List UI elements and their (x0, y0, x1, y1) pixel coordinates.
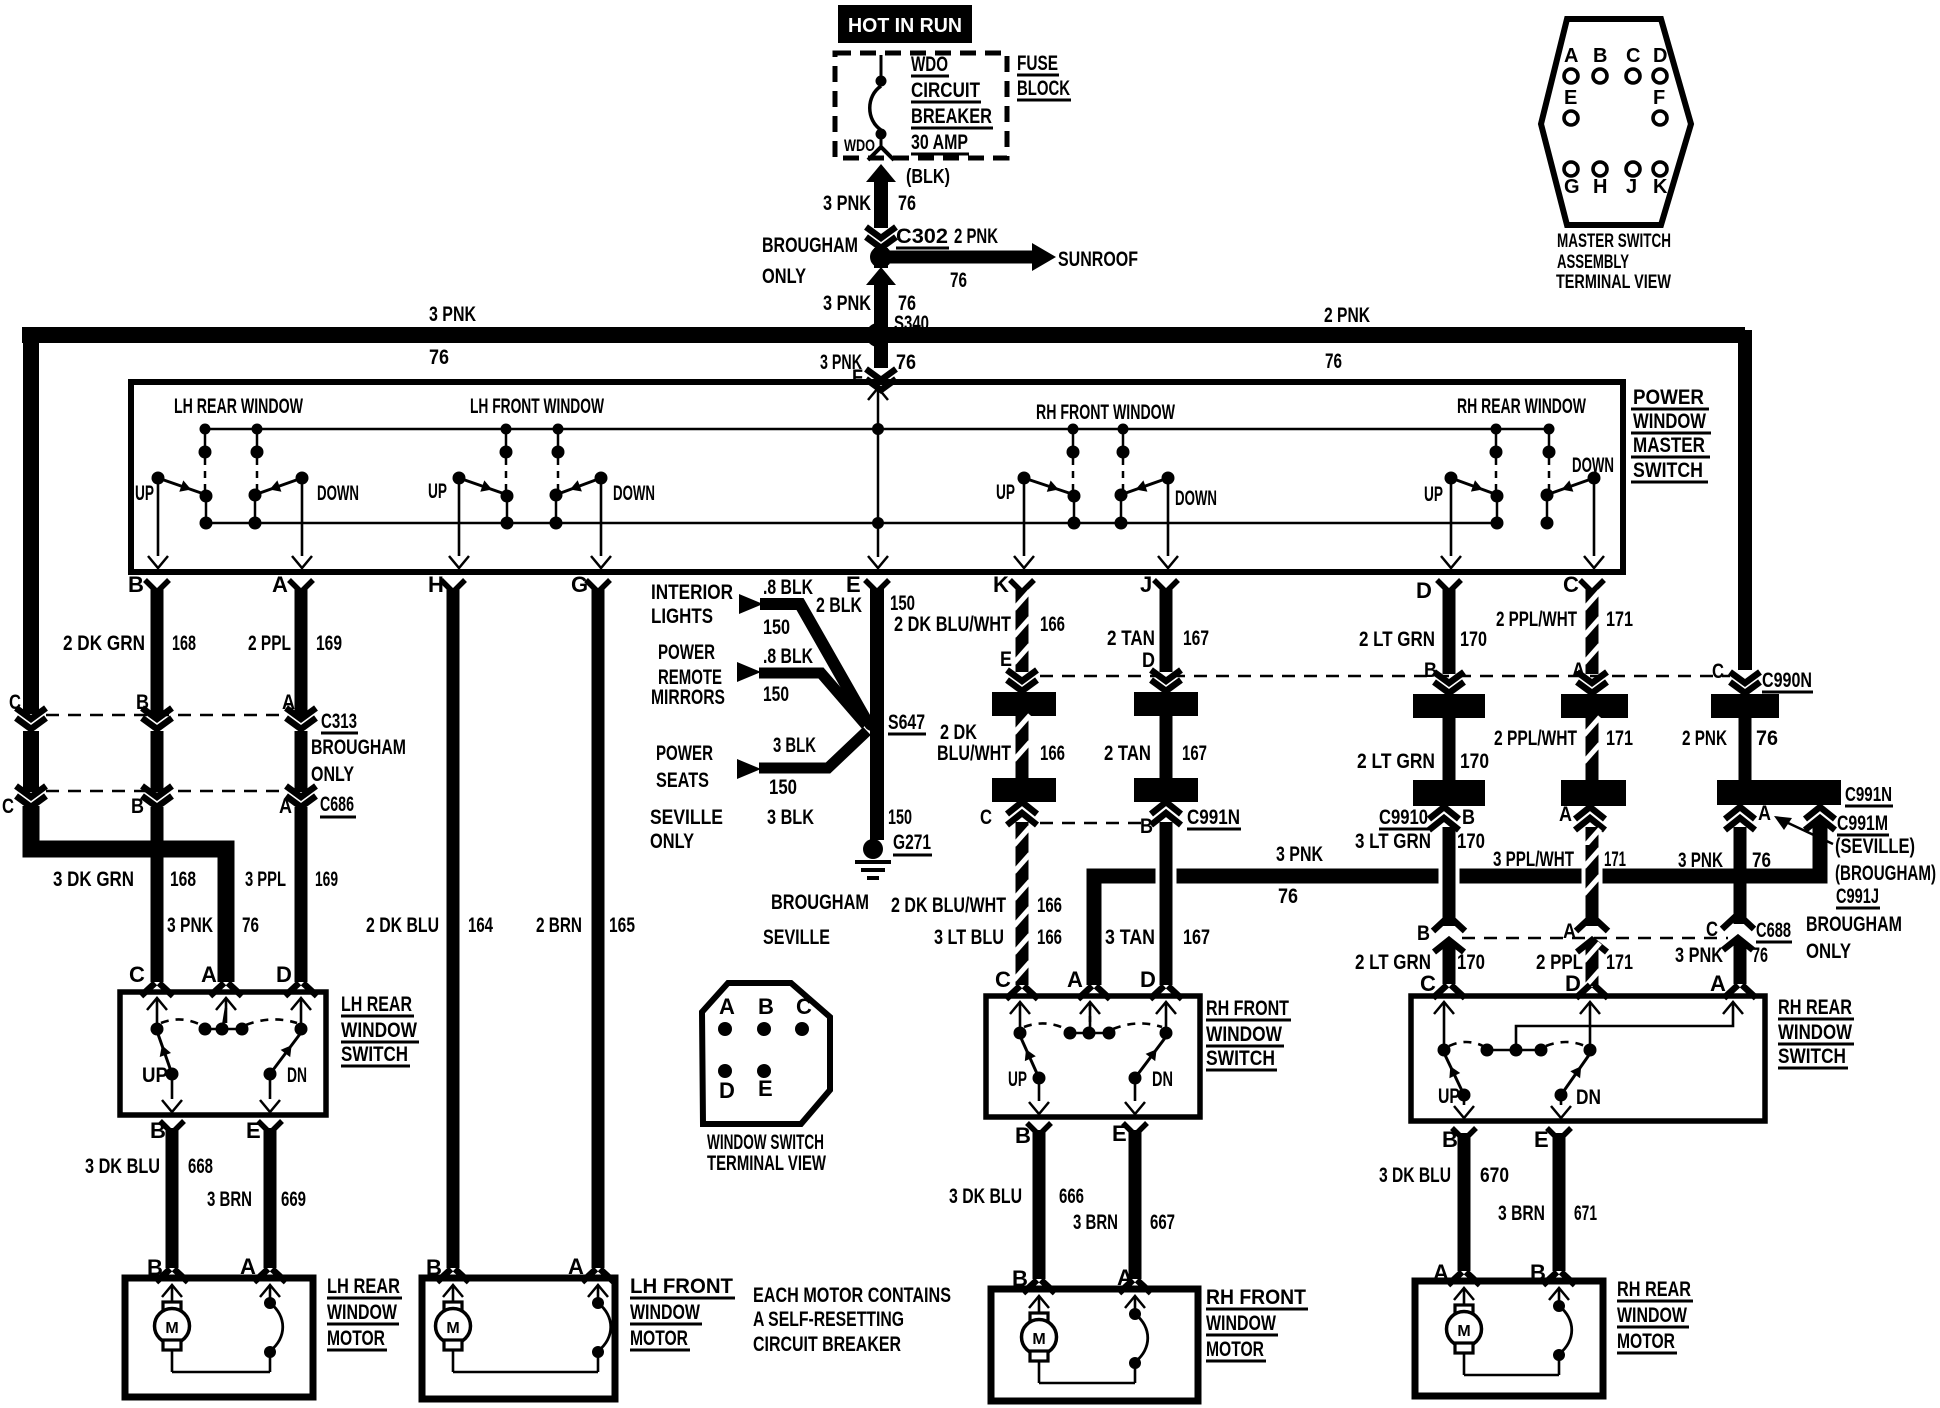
svg-text:POWER: POWER (658, 641, 715, 664)
svg-text:C: C (9, 691, 21, 714)
svg-text:30 AMP: 30 AMP (911, 131, 968, 154)
svg-text:WINDOW: WINDOW (1617, 1304, 1687, 1327)
svg-text:LH REAR WINDOW: LH REAR WINDOW (174, 395, 303, 418)
circuit breaker WDO symbol (880, 55, 883, 77)
svg-text:C: C (1706, 918, 1718, 941)
svg-text:166: 166 (1037, 894, 1062, 917)
wire 3 DK BLU 670 (1458, 1133, 1471, 1271)
svg-text:CIRCUIT BREAKER: CIRCUIT BREAKER (753, 1333, 901, 1356)
svg-text:SWITCH: SWITCH (1633, 459, 1703, 482)
svg-text:A: A (272, 572, 288, 597)
wire 3 PPL/WHT 171 (C wire lower, striped) (1586, 827, 1599, 926)
svg-text:UP: UP (142, 1064, 168, 1087)
svg-text:F: F (1653, 87, 1665, 109)
svg-text:WINDOW: WINDOW (1633, 410, 1706, 433)
svg-text:76: 76 (950, 269, 967, 292)
RH FRONT WINDOW SWITCH box (986, 996, 1200, 1117)
svg-text:3 TAN: 3 TAN (1105, 926, 1155, 949)
wire 2 TAN 167 (pin J) (1160, 588, 1173, 672)
RH front motor pin connectors (1023, 1280, 1055, 1293)
svg-text:SWITCH: SWITCH (1206, 1047, 1275, 1070)
LH REAR WINDOW SWITCH box (120, 992, 326, 1115)
svg-text:C: C (1420, 971, 1436, 996)
svg-text:169: 169 (316, 632, 342, 655)
svg-text:3 PPL: 3 PPL (245, 868, 286, 891)
svg-text:FUSE: FUSE (1017, 52, 1058, 75)
svg-text:3 DK BLU: 3 DK BLU (1379, 1164, 1451, 1187)
wire 2 DK GRN 168 (pin B) (151, 588, 164, 716)
svg-text:S647: S647 (888, 711, 925, 734)
svg-text:BLOCK: BLOCK (1017, 77, 1070, 100)
svg-text:167: 167 (1183, 926, 1210, 949)
svg-text:3 PNK: 3 PNK (823, 192, 871, 215)
svg-text:DOWN: DOWN (613, 482, 655, 505)
svg-text:3 BLK: 3 BLK (773, 734, 816, 757)
svg-text:MOTOR: MOTOR (630, 1327, 688, 1350)
connector C302 (866, 227, 896, 248)
svg-text:A: A (1559, 803, 1572, 826)
svg-text:667: 667 (1150, 1211, 1175, 1234)
svg-text:3 DK BLU: 3 DK BLU (85, 1155, 160, 1178)
ground G271 (863, 839, 883, 859)
svg-text:M: M (165, 1320, 178, 1337)
terminal pins A B C D E (718, 1022, 732, 1036)
svg-text:TERMINAL VIEW: TERMINAL VIEW (1556, 272, 1671, 293)
svg-text:(BLK): (BLK) (906, 166, 950, 188)
main 3 PNK / 2 PNK bus wire (22, 327, 1745, 343)
svg-text:RH FRONT: RH FRONT (1206, 997, 1289, 1020)
connector C991M below block (PNK wire) (1725, 807, 1755, 819)
svg-text:HOT IN RUN: HOT IN RUN (848, 15, 962, 37)
RH front switch pin connectors (1006, 986, 1038, 999)
HOT IN RUN label box (838, 5, 972, 43)
wire 3 PNK 76 from splice S340, arrow up (866, 267, 896, 285)
motor M with brushes (1454, 1288, 1474, 1300)
svg-text:165: 165 (609, 914, 635, 937)
wire 2 BRN 165 (pin G) to LH front motor (592, 588, 605, 1268)
RH rear window switch box (1411, 996, 1765, 1121)
svg-text:D: D (1140, 967, 1156, 992)
svg-text:WDO: WDO (844, 136, 875, 155)
connector block 2 on wire J (1134, 778, 1198, 802)
svg-text:669: 669 (281, 1188, 306, 1211)
svg-text:INTERIOR: INTERIOR (651, 581, 733, 604)
svg-text:G: G (571, 572, 588, 597)
LH REAR WINDOW MOTOR box (125, 1278, 313, 1397)
svg-text:3 PNK: 3 PNK (167, 914, 213, 937)
svg-text:DN: DN (1152, 1068, 1173, 1091)
svg-text:UP: UP (428, 480, 447, 503)
svg-text:164: 164 (468, 914, 493, 937)
RH FRONT WINDOW MOTOR box (991, 1289, 1198, 1401)
svg-text:M: M (1457, 1323, 1470, 1340)
svg-text:UP: UP (1424, 483, 1443, 506)
svg-text:DOWN: DOWN (1572, 454, 1614, 477)
svg-text:H: H (1593, 176, 1607, 198)
svg-text:C686: C686 (320, 793, 354, 816)
connector below block (C wire) (1575, 807, 1605, 819)
svg-text:170: 170 (1460, 628, 1487, 651)
svg-text:2 LT GRN: 2 LT GRN (1359, 628, 1435, 651)
self-resetting circuit breaker (588, 1285, 608, 1297)
svg-text:3 PNK: 3 PNK (1675, 944, 1723, 967)
svg-text:WINDOW: WINDOW (327, 1301, 397, 1324)
svg-text:167: 167 (1182, 742, 1207, 765)
connector C313 dashed line (46, 714, 286, 717)
connector C at C686 line (left wire) (16, 786, 46, 807)
svg-text:B: B (1462, 806, 1475, 829)
svg-text:C990N: C990N (1762, 669, 1812, 692)
wire 3 BRN 669 (264, 1128, 277, 1268)
svg-text:SEVILLE: SEVILLE (650, 806, 723, 829)
wire 2 PNK 76 branch to sunroof with arrow (874, 248, 888, 268)
svg-text:LH REAR: LH REAR (327, 1275, 400, 1298)
motor M with brushes (1029, 1296, 1049, 1308)
connector block on wire K (992, 692, 1056, 716)
svg-text:166: 166 (1037, 926, 1062, 949)
svg-text:D: D (276, 962, 292, 987)
wire 3 PNK 76 from fuse block, arrow up (866, 164, 896, 182)
svg-text:2 PNK: 2 PNK (1324, 304, 1370, 327)
svg-text:3 LT GRN: 3 LT GRN (1355, 830, 1431, 853)
svg-text:ASSEMBLY: ASSEMBLY (1557, 252, 1629, 273)
svg-text:RH REAR: RH REAR (1617, 1278, 1691, 1301)
self-resetting circuit breaker (1549, 1288, 1569, 1300)
wire 2 LT GRN 170 (pin D) (1443, 588, 1456, 674)
svg-text:B: B (758, 994, 774, 1019)
svg-text:A: A (1710, 971, 1726, 996)
svg-text:RH FRONT WINDOW: RH FRONT WINDOW (1036, 401, 1175, 424)
svg-text:C: C (1626, 45, 1640, 67)
master terminal pins row GHJK (1564, 162, 1578, 176)
connector C688 dashed line (1462, 937, 1728, 940)
svg-text:150: 150 (888, 806, 912, 829)
svg-text:WDO: WDO (911, 53, 948, 76)
svg-text:MOTOR: MOTOR (1617, 1330, 1675, 1353)
svg-text:2 DK: 2 DK (940, 721, 977, 744)
connector C9910 below block (D wire) (1429, 807, 1459, 819)
svg-text:UP: UP (1438, 1085, 1460, 1108)
svg-text:76: 76 (898, 192, 916, 215)
interior lights feed arrow (739, 594, 763, 614)
svg-text:670: 670 (1480, 1164, 1509, 1187)
svg-text:666: 666 (1059, 1185, 1084, 1208)
svg-text:169: 169 (315, 868, 338, 891)
svg-text:BROUGHAM: BROUGHAM (762, 234, 858, 257)
svg-text:BREAKER: BREAKER (911, 105, 992, 128)
svg-text:F: F (852, 366, 863, 389)
svg-text:A: A (1564, 45, 1578, 67)
svg-text:DN: DN (1576, 1086, 1601, 1109)
wire 3 PNK 76 to RH rear switch pin A (1734, 942, 1747, 984)
svg-text:SEVILLE: SEVILLE (763, 926, 830, 949)
RH REAR WINDOW MOTOR box (1415, 1281, 1603, 1396)
connector C991 dashed line (1040, 822, 1150, 825)
svg-text:BROUGHAM: BROUGHAM (1806, 913, 1902, 936)
wire 2 LT GRN 170 to RH rear switch pin C (1443, 944, 1456, 984)
svg-text:C991M: C991M (1837, 812, 1888, 835)
master switch top bus wire (205, 428, 1549, 431)
svg-text:RH REAR: RH REAR (1778, 996, 1852, 1019)
svg-text:WINDOW: WINDOW (630, 1301, 700, 1324)
svg-text:76: 76 (1756, 727, 1778, 750)
motor internal bottom wire (453, 1371, 598, 1374)
LH FRONT WINDOW MOTOR box (422, 1278, 615, 1399)
wire 3 BRN 671 (1553, 1133, 1566, 1271)
svg-text:J: J (1626, 176, 1637, 198)
power seats feed arrow (737, 759, 761, 779)
svg-text:E: E (1000, 648, 1012, 671)
svg-text:D: D (1653, 45, 1667, 67)
svg-text:C: C (2, 795, 14, 818)
svg-text:2 DK BLU/WHT: 2 DK BLU/WHT (891, 894, 1006, 917)
connector C at C313 line (left wire) (16, 708, 46, 729)
svg-text:2 DK GRN: 2 DK GRN (63, 632, 145, 655)
svg-text:C: C (980, 806, 992, 829)
svg-text:DOWN: DOWN (1175, 487, 1217, 510)
svg-text:171: 171 (1606, 951, 1633, 974)
svg-text:WINDOW: WINDOW (1206, 1023, 1282, 1046)
svg-text:EACH MOTOR CONTAINS: EACH MOTOR CONTAINS (753, 1284, 951, 1307)
svg-text:SUNROOF: SUNROOF (1058, 248, 1138, 271)
svg-text:LH FRONT: LH FRONT (630, 1275, 733, 1298)
motor internal bottom wire (1039, 1382, 1135, 1385)
RH rear switch internals (1434, 1002, 1454, 1014)
svg-text:.8 BLK: .8 BLK (763, 645, 813, 668)
wire 2 DK BLU/WHT 166 lower (striped) to RH front switch pin C (1016, 822, 1029, 985)
svg-text:3 BRN: 3 BRN (1498, 1202, 1545, 1225)
svg-text:C: C (129, 962, 145, 987)
svg-text:C313: C313 (321, 710, 357, 733)
svg-text:M: M (446, 1320, 459, 1337)
connector blocks row 1 (D, C, PNK wires) (1413, 694, 1485, 718)
svg-text:POWER: POWER (1633, 386, 1704, 409)
wire 2 DK BLU 164 (pin H) to LH front motor (447, 588, 460, 1268)
wire segments between blocks (1443, 718, 1456, 780)
svg-text:SEATS: SEATS (656, 769, 709, 792)
svg-text:MOTOR: MOTOR (327, 1327, 385, 1350)
svg-text:B: B (1424, 659, 1437, 682)
svg-text:168: 168 (172, 632, 196, 655)
RH rear switch pin connectors (1433, 985, 1465, 998)
svg-text:3 BRN: 3 BRN (207, 1188, 252, 1211)
svg-text:M: M (1032, 1331, 1045, 1348)
svg-text:C: C (796, 994, 812, 1019)
wire D crossing over 3 PNK run (1439, 848, 1460, 904)
connector blocks row 2 (D, C) and wide C991N block (1413, 780, 1485, 806)
svg-text:BROUGHAM: BROUGHAM (311, 736, 406, 759)
svg-text:2 DK BLU/WHT: 2 DK BLU/WHT (894, 613, 1011, 636)
svg-text:(BROUGHAM): (BROUGHAM) (1835, 862, 1936, 885)
svg-text:ONLY: ONLY (1806, 940, 1851, 963)
svg-text:171: 171 (1604, 848, 1626, 871)
svg-text:2 TAN: 2 TAN (1107, 627, 1155, 650)
svg-text:3 PNK: 3 PNK (429, 303, 476, 326)
svg-text:MIRRORS: MIRRORS (651, 686, 725, 709)
svg-text:(SEVILLE): (SEVILLE) (1835, 835, 1915, 858)
motor internal bottom wire (172, 1371, 270, 1374)
svg-text:E: E (758, 1076, 773, 1101)
wire 3 PPL 169 to LH rear switch pin D (295, 807, 308, 982)
wire 3 PNK elbow to LH rear switch pin A (31, 806, 226, 982)
svg-text:A: A (1758, 802, 1771, 825)
power window master switch box (131, 382, 1623, 572)
svg-text:150: 150 (763, 616, 790, 639)
svg-text:2 LT GRN: 2 LT GRN (1357, 750, 1435, 773)
svg-text:3 BRN: 3 BRN (1073, 1211, 1118, 1234)
svg-text:76: 76 (896, 351, 916, 374)
svg-text:BROUGHAM: BROUGHAM (771, 891, 869, 914)
svg-text:76: 76 (242, 914, 259, 937)
svg-text:UP: UP (1008, 1068, 1027, 1091)
connector C991N on wire J (1151, 802, 1181, 814)
svg-text:C9910: C9910 (1379, 806, 1428, 829)
svg-text:2 DK BLU: 2 DK BLU (366, 914, 439, 937)
connector C991 on wire K (1007, 802, 1037, 814)
svg-text:B: B (128, 572, 144, 597)
svg-text:LIGHTS: LIGHTS (651, 605, 713, 628)
svg-text:170: 170 (1457, 951, 1485, 974)
svg-text:2 PNK: 2 PNK (1682, 727, 1727, 750)
connector C686 dashed line (46, 790, 286, 793)
svg-text:D: D (719, 1078, 735, 1103)
svg-text:E: E (1564, 87, 1577, 109)
wire 3 PNK 76 horizontal run to C991M (1094, 822, 1820, 985)
connector C990 dashed line (1040, 675, 1730, 678)
wire 3 PNK left feed from bus (23, 335, 39, 714)
svg-text:3 DK BLU: 3 DK BLU (949, 1185, 1022, 1208)
svg-text:A: A (1067, 967, 1083, 992)
svg-text:B: B (1593, 45, 1607, 67)
svg-text:2 PNK: 2 PNK (954, 225, 998, 248)
svg-text:167: 167 (1183, 627, 1209, 650)
svg-text:150: 150 (769, 776, 797, 799)
svg-text:TERMINAL VIEW: TERMINAL VIEW (707, 1152, 826, 1175)
svg-text:166: 166 (1040, 742, 1065, 765)
svg-text:C: C (1563, 572, 1579, 597)
svg-text:668: 668 (188, 1155, 213, 1178)
svg-text:WINDOW: WINDOW (1206, 1312, 1276, 1335)
svg-text:ONLY: ONLY (311, 763, 354, 786)
wire 3 LT GRN 170 (D wire lower) (1443, 827, 1456, 926)
svg-text:166: 166 (1040, 613, 1065, 636)
splice S647 (864, 715, 880, 731)
svg-text:K: K (993, 572, 1009, 597)
wire J crossing over 3 PNK run (1156, 843, 1177, 907)
svg-text:RH FRONT: RH FRONT (1206, 1286, 1306, 1309)
wire BLK 150 (pin E) to ground G271 (870, 588, 884, 840)
svg-text:C: C (1712, 660, 1724, 683)
wire 3 PNK 76 feed F to master switch (874, 343, 888, 368)
svg-text:76: 76 (429, 346, 449, 369)
svg-text:C: C (995, 967, 1011, 992)
feed junction node F to buses (872, 423, 884, 435)
svg-text:B: B (1140, 815, 1153, 838)
wire 2 PPL 171 to RH rear switch pin D (1586, 944, 1599, 986)
svg-text:A: A (719, 994, 735, 1019)
svg-text:SWITCH: SWITCH (341, 1043, 408, 1066)
svg-text:K: K (1653, 176, 1668, 198)
wire 3 DK BLU 668 (166, 1128, 179, 1268)
window switch terminal view connector outline (702, 983, 830, 1124)
master switch bottom bus wire (205, 522, 1496, 525)
svg-text:MOTOR: MOTOR (1206, 1338, 1264, 1361)
power remote mirrors feed arrow (737, 662, 761, 682)
svg-text:150: 150 (763, 683, 789, 706)
wire 2 PPL/WHT 171 (pin C, striped) (1586, 588, 1599, 674)
wire C crossing over 3 PNK run (1582, 848, 1603, 904)
master switch pin connectors (145, 580, 169, 592)
svg-text:MASTER: MASTER (1633, 434, 1705, 457)
wire segments between C313 and C686 (151, 731, 164, 792)
svg-text:H: H (428, 572, 444, 597)
svg-text:3 BLK: 3 BLK (767, 806, 814, 829)
svg-text:C991N: C991N (1845, 784, 1892, 806)
RH rear motor pin connectors (1448, 1272, 1480, 1285)
connector stub C991M right (1805, 807, 1835, 819)
svg-text:C991J: C991J (1836, 885, 1879, 908)
svg-text:UP: UP (996, 481, 1015, 504)
svg-text:C991N: C991N (1187, 806, 1240, 829)
wire 3 PNK 76 (PNK wire lower) (1734, 827, 1747, 924)
svg-text:DOWN: DOWN (317, 482, 359, 505)
svg-text:C688: C688 (1756, 919, 1791, 942)
wire to pin E with arrow (877, 523, 880, 557)
svg-text:ONLY: ONLY (762, 265, 806, 288)
wire 2 DK BLU/WHT 166 (pin K, striped) (1016, 588, 1029, 672)
LH rear switch pin connectors (141, 983, 173, 996)
svg-text:3 LT BLU: 3 LT BLU (934, 926, 1004, 949)
svg-text:LH REAR: LH REAR (341, 993, 412, 1016)
svg-text:3 PNK: 3 PNK (1276, 843, 1323, 866)
svg-text:2 PPL/WHT: 2 PPL/WHT (1496, 608, 1577, 631)
svg-text:3 PPL/WHT: 3 PPL/WHT (1493, 848, 1574, 871)
svg-text:A: A (1563, 920, 1576, 943)
fuse block dashed box (835, 53, 1007, 158)
self-resetting circuit breaker (1125, 1296, 1145, 1308)
svg-text:170: 170 (1460, 750, 1489, 773)
svg-text:POWER: POWER (656, 742, 713, 765)
svg-text:ONLY: ONLY (650, 830, 694, 853)
LH front motor pin connectors (437, 1269, 469, 1282)
wire 3 DK BLU 666 (1033, 1130, 1046, 1279)
svg-text:76: 76 (1325, 350, 1342, 373)
svg-text:.8 BLK: .8 BLK (763, 576, 813, 599)
wire 3 DK GRN 168 to LH rear switch pin C (151, 807, 164, 982)
svg-text:C302: C302 (896, 225, 948, 248)
svg-text:WINDOW: WINDOW (341, 1019, 417, 1042)
svg-text:150: 150 (890, 592, 915, 615)
svg-text:UP: UP (135, 482, 154, 505)
motor M with brushes (443, 1285, 463, 1297)
svg-text:BLU/WHT: BLU/WHT (937, 742, 1011, 765)
svg-text:A SELF-RESETTING: A SELF-RESETTING (753, 1308, 904, 1331)
wire 3 BRN 667 (1129, 1130, 1142, 1279)
wire 2 PPL 169 (pin A) (295, 588, 308, 716)
svg-text:2 PPL: 2 PPL (248, 632, 291, 655)
svg-text:D: D (1416, 578, 1432, 603)
svg-text:76: 76 (1752, 944, 1768, 967)
svg-text:B: B (1417, 922, 1430, 945)
self-resetting circuit breaker (260, 1285, 280, 1297)
svg-text:3 DK GRN: 3 DK GRN (53, 868, 134, 891)
svg-text:671: 671 (1574, 1202, 1597, 1225)
svg-text:J: J (1140, 572, 1152, 597)
svg-text:2 TAN: 2 TAN (1104, 742, 1151, 765)
svg-text:WINDOW: WINDOW (1778, 1021, 1852, 1044)
motor internal bottom wire (1464, 1374, 1559, 1377)
svg-text:LH FRONT WINDOW: LH FRONT WINDOW (470, 395, 604, 418)
